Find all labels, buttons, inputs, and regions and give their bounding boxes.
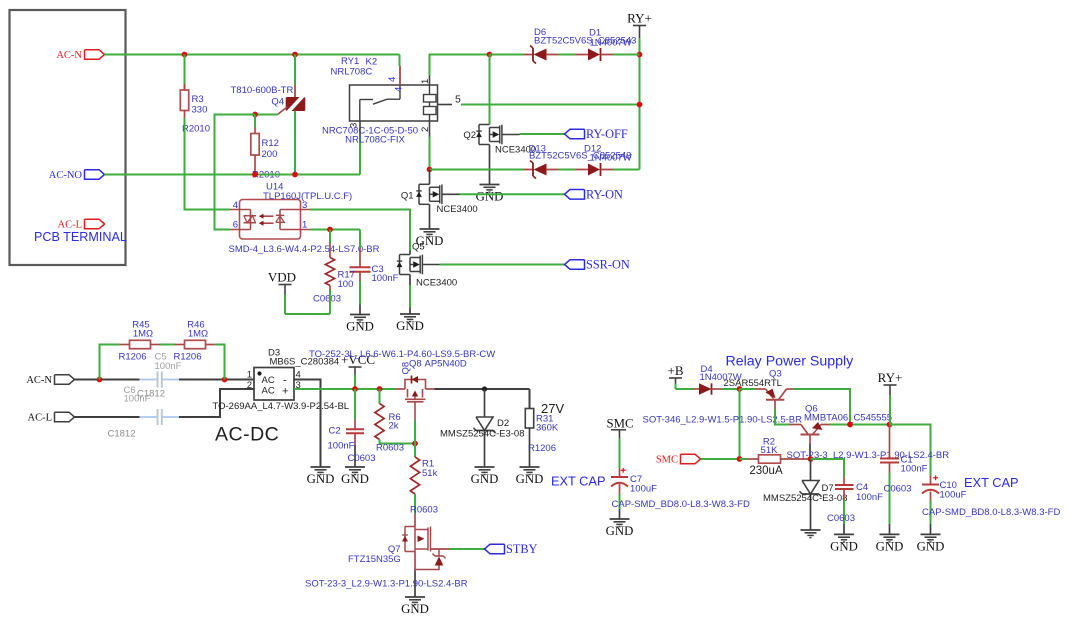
svg-text:Q1: Q1 <box>401 191 414 202</box>
node RY+/C1 junction <box>887 422 893 428</box>
svg-text:Q5: Q5 <box>412 242 425 253</box>
port flag RY-ON <box>565 190 585 200</box>
transistor Q3 2SAR554RTL <box>740 388 756 390</box>
svg-text:C0603: C0603 <box>884 484 912 495</box>
ground below Q2 <box>489 145 491 185</box>
svg-text:CAP-SMD_BD8.0-L8.3-W8.3-FD: CAP-SMD_BD8.0-L8.3-W8.3-FD <box>612 499 750 510</box>
ground below R31 <box>520 466 540 468</box>
svg-text:NRL708C-FIX: NRL708C-FIX <box>345 135 405 146</box>
ground below C4 <box>834 533 854 535</box>
relay RY1 K2 NRL708C <box>350 85 438 121</box>
capacitor C5 <box>157 372 159 388</box>
svg-text:330: 330 <box>192 105 208 116</box>
svg-text:EXT CAP: EXT CAP <box>964 475 1019 490</box>
wire Q1 gate to RY-ON <box>460 193 565 195</box>
port flag AC-L (bottom) <box>55 412 75 422</box>
ground below Q1 <box>429 204 431 229</box>
wire AC-N top rail <box>105 54 400 56</box>
svg-text:GND: GND <box>876 540 904 554</box>
svg-text:100uF: 100uF <box>940 490 967 501</box>
power flag RY+ top <box>633 25 646 27</box>
capacitor C7 100uF <box>619 439 621 468</box>
wire R3 to U14 pin4 <box>185 118 231 210</box>
node R12 top junction <box>252 112 258 118</box>
wire RY+ column <box>639 55 641 170</box>
wire relay pin1 up to D6 rail <box>430 55 490 76</box>
svg-text:RY1: RY1 <box>341 56 359 67</box>
svg-text:1: 1 <box>247 370 252 381</box>
svg-text:C2: C2 <box>329 426 341 437</box>
zener D7 MMSZ5254C <box>810 459 812 481</box>
svg-text:STBY: STBY <box>506 542 538 556</box>
capacitor C10 100uF <box>930 476 932 485</box>
svg-text:100uF: 100uF <box>630 484 657 495</box>
svg-text:EXT CAP: EXT CAP <box>551 474 606 489</box>
port flag RY-OFF <box>565 129 585 139</box>
svg-text:1N4007W: 1N4007W <box>590 38 632 49</box>
svg-text:C1812: C1812 <box>108 429 136 440</box>
svg-text:R1206: R1206 <box>528 443 556 454</box>
ground below C10 <box>921 533 941 535</box>
transistor Q5 NCE3400 <box>409 251 411 255</box>
svg-text:TLP160J(TPL.U.C.F): TLP160J(TPL.U.C.F) <box>263 191 352 202</box>
PCB TERMINAL box <box>10 10 126 265</box>
port flag AC-NO <box>85 170 105 180</box>
svg-text:100nF: 100nF <box>124 394 151 405</box>
resistor R6 <box>379 389 381 404</box>
svg-text:51K: 51K <box>761 445 779 456</box>
wire AC-N corner to relay pin4 <box>399 55 401 67</box>
relay pin 3 stub <box>359 121 361 137</box>
resistor R2 51K <box>740 458 748 460</box>
svg-text:AC-L: AC-L <box>28 413 53 424</box>
transistor Q8 AP5N40D <box>395 388 405 390</box>
svg-text:GND: GND <box>606 524 634 538</box>
svg-text:FTZ15N35G: FTZ15N35G <box>348 554 401 565</box>
svg-text:2k: 2k <box>389 421 399 432</box>
svg-text:Q4: Q4 <box>271 97 284 108</box>
svg-text:C0603: C0603 <box>827 513 855 524</box>
svg-text:AC-DC: AC-DC <box>215 424 279 446</box>
svg-text:Q2: Q2 <box>463 130 476 141</box>
wire Q7 gate to STBY <box>431 548 450 550</box>
resistor R1 <box>414 444 416 458</box>
svg-text:R3: R3 <box>192 94 204 105</box>
svg-text:T810-600B-TR: T810-600B-TR <box>231 85 294 96</box>
svg-text:R1206: R1206 <box>119 352 147 363</box>
svg-text:GND: GND <box>401 602 429 616</box>
resistor R45 <box>100 345 120 380</box>
svg-text:51k: 51k <box>422 468 438 479</box>
wire Q2 gate to RY-OFF <box>520 133 565 135</box>
diode D13 (zener) <box>524 169 534 171</box>
ground below Q7 <box>414 552 416 571</box>
diode D12 <box>576 169 589 171</box>
svg-text:100nF: 100nF <box>155 361 182 372</box>
svg-text:RY-OFF: RY-OFF <box>586 127 628 141</box>
svg-text:GND: GND <box>830 540 858 554</box>
svg-text:1MΩ: 1MΩ <box>188 329 208 340</box>
svg-text:RY+: RY+ <box>627 11 652 26</box>
svg-text:SSR-ON: SSR-ON <box>586 258 630 272</box>
svg-text:1N4007W: 1N4007W <box>590 153 632 164</box>
resistor R3 <box>184 55 186 90</box>
power flag +VCC <box>349 366 362 368</box>
svg-text:GND: GND <box>396 319 424 333</box>
svg-text:Q8: Q8 <box>401 362 412 375</box>
wire relay pin2 down to Q1 node <box>429 137 431 170</box>
svg-text:RY-ON: RY-ON <box>586 187 623 201</box>
wire D13 row <box>430 169 524 171</box>
svg-text:C0603: C0603 <box>313 294 341 305</box>
wire Q6 base to R2 node <box>809 435 811 444</box>
wire AC-N to bridge <box>75 379 140 381</box>
transistor Q7 FTZ15N35G <box>414 514 416 527</box>
svg-text:GND: GND <box>346 320 374 334</box>
svg-text:TO-252-3L_L6.6-W6.1-P4.60-LS9.: TO-252-3L_L6.6-W6.1-P4.60-LS9.5-BR-CW <box>309 349 495 360</box>
diode D4 1N4007W <box>676 388 694 390</box>
svg-text:1: 1 <box>420 79 431 84</box>
wire D6 row <box>490 54 524 56</box>
svg-text:NCE3400: NCE3400 <box>437 204 478 215</box>
relay pin 4 stub <box>399 66 401 86</box>
ground below C7 <box>610 518 630 520</box>
ground below C1 <box>880 533 900 535</box>
svg-text:+B: +B <box>667 363 683 378</box>
relay pin 2 stub <box>429 121 431 137</box>
port flag SMC <box>681 454 701 464</box>
resistor R17 <box>329 230 331 244</box>
svg-text:MMBTA06_C545555: MMBTA06_C545555 <box>804 413 892 424</box>
svg-text:100nF: 100nF <box>901 464 928 475</box>
power flag VDD <box>284 285 286 295</box>
transistor Q1 NCE3400 <box>429 170 431 185</box>
node D1/RY+ junction <box>637 52 643 58</box>
node SMC/+B junction <box>737 456 743 462</box>
svg-text:VDD: VDD <box>268 270 296 285</box>
svg-text:GND: GND <box>516 472 544 486</box>
wire relay pin3 to AC-NO <box>359 137 361 175</box>
transistor Q6 MMBTA06 <box>790 424 802 426</box>
wire U14 pin3 to Q5 drain <box>310 210 410 251</box>
zener D2 MMSZ5254C <box>484 389 486 417</box>
port flag AC-L (top, unconnected) <box>85 219 105 229</box>
zener gate protection Q7 <box>438 549 440 556</box>
svg-text:GND: GND <box>341 472 369 486</box>
node C5/R46 junction <box>222 377 228 383</box>
port flag SSR-ON <box>565 260 585 270</box>
svg-text:4: 4 <box>387 77 398 82</box>
diode D6 (zener) <box>524 54 534 56</box>
node R2/D7/C4/Q6 junction <box>808 456 814 462</box>
node AC-NO/Q4 junction <box>292 172 298 178</box>
wire Q8 to +B/R31 <box>435 388 530 390</box>
resistor R12 <box>254 115 256 128</box>
svg-text:D2: D2 <box>497 418 509 429</box>
node AC-N/R45 junction <box>97 377 103 383</box>
wire AC-L to bridge <box>75 416 140 418</box>
wire AC-NO rail <box>105 174 361 176</box>
svg-text:R1206: R1206 <box>174 352 202 363</box>
wire SMC rail <box>701 458 740 460</box>
wire R17 to VDD <box>329 290 331 314</box>
bridge rectifier D3 MB6S <box>254 368 294 401</box>
ground below C3 <box>359 305 361 315</box>
svg-text:AP5N40D: AP5N40D <box>425 359 467 370</box>
svg-text:230uA: 230uA <box>749 465 783 477</box>
svg-text:100: 100 <box>338 279 354 290</box>
capacitor C1 <box>889 425 891 459</box>
svg-text:360K: 360K <box>536 423 559 434</box>
svg-text:AC: AC <box>262 375 275 386</box>
svg-text:SMC: SMC <box>656 455 678 466</box>
relay pin 1 stub <box>429 76 431 86</box>
wire U14 pin1 to C3 <box>310 229 360 231</box>
wire Q3 base to Q6 collector <box>774 400 776 410</box>
svg-text:2: 2 <box>420 127 431 132</box>
svg-text:4: 4 <box>233 200 238 211</box>
node R17 junction <box>327 227 333 233</box>
relay pin 5 stub <box>438 104 453 106</box>
svg-text:GND: GND <box>471 472 499 486</box>
power flag RY+ right <box>884 384 897 386</box>
wire Q5 gate to SSR-ON <box>440 264 565 266</box>
resistor R46 <box>160 344 175 346</box>
svg-text:NCE3400: NCE3400 <box>416 278 457 289</box>
svg-text:2: 2 <box>247 380 252 391</box>
diode D1 <box>576 54 589 56</box>
svg-text:MMSZ5254C-E3-08: MMSZ5254C-E3-08 <box>440 429 524 440</box>
svg-text:1: 1 <box>302 220 307 231</box>
node AC-NO/R12 junction <box>252 172 258 178</box>
svg-text:Relay Power Supply: Relay Power Supply <box>726 354 855 370</box>
capacitor C4 <box>811 459 845 477</box>
ground below Q5 <box>409 275 411 286</box>
svg-text:200: 200 <box>262 149 278 160</box>
port flag STBY <box>485 544 505 554</box>
ground below D7 <box>801 529 821 531</box>
svg-text:PCB TERMINAL: PCB TERMINAL <box>34 230 127 244</box>
ground below C2 <box>345 466 365 468</box>
wire pin5 to RY+ column <box>461 104 640 106</box>
node AC-N/R3 junction <box>182 52 188 58</box>
svg-text:4: 4 <box>394 87 405 92</box>
svg-text:SMC: SMC <box>606 417 633 431</box>
triac Q4 <box>294 55 296 86</box>
svg-text:5: 5 <box>455 94 461 106</box>
svg-text:GND: GND <box>307 472 335 486</box>
svg-text:AC: AC <box>262 386 275 397</box>
svg-text:AC-N: AC-N <box>56 50 82 61</box>
capacitor C2 <box>354 389 356 420</box>
capacitor C3 <box>359 230 361 249</box>
svg-text:CAP-SMD_BD8.0-L8.3-W8.3-FD: CAP-SMD_BD8.0-L8.3-W8.3-FD <box>922 507 1060 518</box>
svg-text:SOT-23-3_L2.9-W1.3-P1.90-LS2.4: SOT-23-3_L2.9-W1.3-P1.90-LS2.4-BR <box>305 579 468 590</box>
svg-text:MMSZ5254C-E3-08: MMSZ5254C-E3-08 <box>763 493 847 504</box>
resistor R31 <box>529 389 531 409</box>
svg-text:+: + <box>282 386 288 398</box>
node VCC/R6 junction <box>377 386 383 392</box>
node Q3/Q6 junction <box>847 422 853 428</box>
svg-text:RY+: RY+ <box>878 370 903 385</box>
wire +B node down to SMC rail <box>739 389 741 459</box>
node pin5/RY+ junction <box>637 102 643 108</box>
wire Q4 gate to R12 node <box>255 114 278 116</box>
wire VCC rail <box>294 388 395 390</box>
node Q1 drain junction <box>427 167 433 173</box>
ground below D2 <box>475 466 495 468</box>
svg-text:100nF: 100nF <box>856 492 883 503</box>
svg-text:R12: R12 <box>262 138 279 149</box>
port flag AC-N (bottom) <box>55 375 75 385</box>
svg-text:AC-N: AC-N <box>26 375 52 386</box>
svg-text:2SAR554RTL: 2SAR554RTL <box>724 378 782 389</box>
svg-text:SMD-4_L3.6-W4.4-P2.54-LS7.0-BR: SMD-4_L3.6-W4.4-P2.54-LS7.0-BR <box>229 244 380 255</box>
ground bridge minus <box>311 466 331 468</box>
svg-text:R0603: R0603 <box>376 443 404 454</box>
svg-text:100nF: 100nF <box>328 441 355 452</box>
node VCC/C2 junction <box>352 386 358 392</box>
svg-text:AC-L: AC-L <box>58 220 83 231</box>
svg-text:R2010: R2010 <box>182 124 210 135</box>
wire bridge minus to GND <box>294 380 321 468</box>
svg-text:GND: GND <box>917 540 945 554</box>
node Q2 drain junction <box>487 52 493 58</box>
svg-text:1MΩ: 1MΩ <box>133 329 153 340</box>
svg-text:TO-269AA_L4.7-W3.9-P2.54-BL: TO-269AA_L4.7-W3.9-P2.54-BL <box>213 401 350 412</box>
transistor Q2 NCE3400 <box>489 55 491 125</box>
node D4/Q3 junction <box>737 386 743 392</box>
power flag +B <box>669 377 682 379</box>
svg-text:3: 3 <box>349 123 360 128</box>
svg-text:NRL708C: NRL708C <box>331 67 373 78</box>
svg-text:GND: GND <box>476 190 504 204</box>
svg-text:AC-NO: AC-NO <box>49 170 83 181</box>
svg-text:6: 6 <box>233 220 238 231</box>
node AC-N/Q4 junction <box>292 52 298 58</box>
node +B junction <box>482 386 487 391</box>
wire Q3 collector to Q6 emitter node <box>794 389 851 425</box>
capacitor C6 <box>157 409 159 425</box>
svg-text:100nF: 100nF <box>372 273 399 284</box>
wire R12-node to U14 pin6 <box>215 115 256 230</box>
node gate junction R6/R1/Q8 <box>412 441 418 447</box>
wire to C10 corner <box>890 425 931 476</box>
port flag AC-N <box>85 50 105 60</box>
wire Q6 emitter row <box>830 424 890 426</box>
svg-text:C0603: C0603 <box>348 453 376 464</box>
optocoupler U14 TLP160J <box>240 200 301 240</box>
